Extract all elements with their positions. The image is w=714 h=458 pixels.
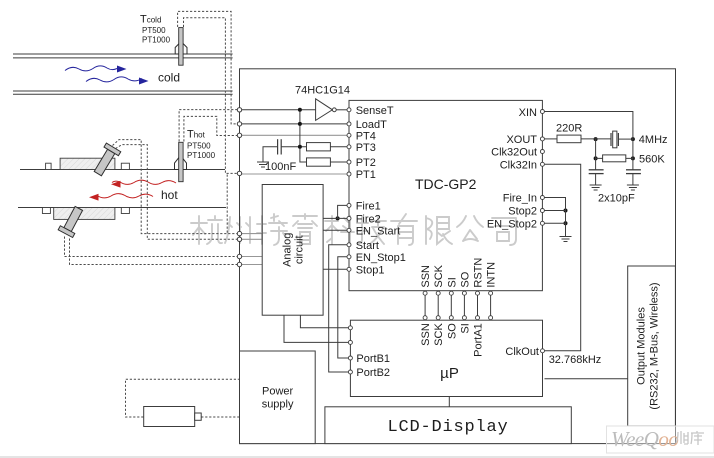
node transducer low a [237, 254, 241, 258]
pin circles TDC bottom [423, 291, 427, 295]
svg-text:Clk32Out: Clk32Out [491, 147, 537, 159]
microcontroller uP [350, 320, 542, 396]
cold pipe bottom wall [13, 90, 233, 92]
wire RSTN-PortA1 [477, 295, 479, 315]
wire crystal to 4MHz node [618, 138, 633, 140]
wire cap right to ground [632, 174, 634, 185]
wire PT1 [241, 173, 347, 175]
svg-text:Fire2: Fire2 [356, 213, 381, 225]
ground left cap [560, 185, 639, 242]
cold flow wave 1 [65, 66, 142, 82]
wire analog to uP a [284, 315, 348, 342]
resistor 560K [603, 155, 626, 162]
wire node to analog 4 [241, 264, 262, 266]
svg-text:PT1000: PT1000 [142, 36, 171, 45]
char rui [293, 214, 317, 244]
capacitor left 10pF [589, 170, 641, 174]
svg-text:Power: Power [262, 386, 294, 398]
output modules block [628, 266, 676, 426]
junction XOUT node [594, 137, 598, 141]
wire Thot inner [184, 116, 237, 141]
svg-text:RSTN: RSTN [473, 258, 485, 288]
wire upper transducer 2 [116, 145, 238, 240]
wire cap left to ground [595, 174, 597, 185]
hot flow wave 1 [97, 180, 176, 198]
pin circles TDC right [540, 110, 544, 114]
wire 220R to crystal [581, 138, 611, 140]
char si [492, 218, 516, 245]
wire Start to PortB2 [329, 245, 349, 372]
wire battery top [126, 379, 241, 417]
svg-text:TDC-GP2: TDC-GP2 [415, 176, 477, 192]
svg-text:Output Modules: Output Modules [636, 307, 648, 385]
dashed sensor wires [65, 11, 241, 417]
svg-text:circuit: circuit [294, 235, 306, 264]
watermark company text: hand-drawn hanzi strokes [191, 214, 516, 245]
svg-text:Stop1: Stop1 [356, 264, 385, 276]
resistor 220R [557, 135, 581, 143]
TDC-GP2 chip [349, 100, 542, 290]
wire EN_Start [323, 229, 347, 231]
svg-text:SSN: SSN [420, 323, 432, 346]
node transducer up a [237, 231, 241, 235]
svg-text:SI: SI [459, 323, 471, 333]
uP top pin labels rotated [420, 323, 484, 357]
TDC right pin labels [487, 107, 537, 230]
svg-text:2x10pF: 2x10pF [598, 193, 635, 205]
black wires left section [241, 110, 347, 162]
svg-text:SCK: SCK [433, 323, 445, 346]
svg-text:PT2: PT2 [356, 157, 376, 169]
boss tab bottom-left [42, 208, 50, 214]
junction EN_Stop2 [564, 221, 568, 225]
wire battery bottom [201, 416, 240, 418]
wire R2 link [300, 147, 307, 162]
svg-text:PT500: PT500 [187, 142, 211, 151]
junction 560K left [594, 156, 598, 160]
pin circles uP left [348, 326, 352, 330]
watermark weeqoo box [607, 426, 714, 453]
weeqoo chinese glyphs [676, 431, 704, 445]
junction Fire1/Fire2 [336, 216, 340, 220]
wire uP to output modules [545, 378, 628, 380]
node transducer low b [237, 262, 241, 266]
svg-text:INTN: INTN [486, 262, 498, 288]
svg-text:SO: SO [446, 323, 458, 339]
junction Stop2 [564, 209, 568, 213]
svg-text:32.768kHz: 32.768kHz [549, 354, 602, 366]
svg-text:4MHz: 4MHz [639, 134, 668, 146]
battery [144, 407, 202, 427]
transducer boss bottom [54, 208, 115, 220]
Tcold sensor probe [175, 28, 187, 66]
wire node to analog 3 [241, 256, 262, 258]
svg-text:EN_Stop1: EN_Stop1 [356, 252, 406, 264]
svg-text:µP: µP [440, 365, 459, 382]
ground right cap [627, 184, 639, 186]
svg-text:Fire_In: Fire_In [503, 193, 537, 205]
capacitor right 10pF [626, 169, 641, 171]
wires TDC right section [449, 112, 633, 407]
svg-text:SO: SO [459, 271, 471, 287]
char xian [426, 216, 452, 244]
wire SenseT [241, 109, 316, 111]
svg-text:supply: supply [262, 399, 294, 411]
node LoadT in [237, 122, 241, 126]
resistor R2 PT2 [307, 158, 331, 166]
svg-text:Fire1: Fire1 [356, 200, 381, 212]
wire stub vertical [226, 175, 228, 234]
wire uP to LCD [448, 397, 450, 407]
cold pipe top wall [13, 54, 233, 94]
svg-text:560K: 560K [639, 154, 665, 166]
label Thot PT500 PT1000 [187, 129, 216, 161]
boss tab top-right [121, 163, 129, 169]
wire INTN [490, 295, 492, 315]
Thot sensor probe [175, 142, 187, 181]
transducer boss top [60, 158, 115, 169]
wire EN_Stop1 to PortB1 [338, 257, 349, 358]
char ke [325, 216, 354, 244]
TDC bottom pin labels rotated [420, 258, 497, 288]
node transducer up b [237, 237, 241, 241]
svg-text:SI: SI [446, 277, 458, 287]
wire cap to ground [263, 147, 278, 162]
junction cap node [298, 145, 302, 149]
pin circle uP ClkOut [541, 349, 545, 353]
svg-text:LoadT: LoadT [356, 119, 387, 131]
wire Tcold A [178, 11, 238, 124]
junction SenseT jumper [298, 108, 302, 112]
svg-text:WeeQoo: WeeQoo [611, 427, 678, 451]
LCD display block [325, 407, 571, 444]
wire R2 to PT2 [330, 161, 347, 163]
svg-text:PT4: PT4 [356, 130, 376, 142]
wire jumper [299, 110, 301, 147]
cold flow arrowheads [117, 66, 149, 85]
svg-text:ClkOut: ClkOut [505, 346, 539, 358]
svg-text:Start: Start [356, 240, 379, 252]
wire upper transducer 1 [113, 140, 238, 234]
svg-text:PT1000: PT1000 [187, 151, 216, 160]
svg-text:EN_Stop2: EN_Stop2 [487, 218, 537, 230]
wire LoadT [241, 123, 347, 125]
wire lower transducer 1 [65, 237, 238, 257]
svg-text:Stop2: Stop2 [508, 206, 537, 218]
char gong [457, 216, 483, 241]
TDC left pin labels [356, 105, 406, 276]
wire node to analog 1 [241, 233, 262, 235]
ultrasonic transducer lower [58, 205, 86, 238]
wire SI-SO bus [450, 295, 452, 315]
svg-text:PortA1: PortA1 [473, 323, 485, 357]
svg-text:PortB2: PortB2 [356, 367, 390, 379]
hot pipe bottom wall [18, 207, 226, 209]
ultrasonic transducer upper [91, 143, 121, 178]
wire R1 to PT3 [330, 146, 347, 148]
svg-text:220R: 220R [556, 123, 582, 135]
hot pipe top wall [18, 170, 226, 208]
node PT1 in [237, 171, 241, 175]
wire lower transducer 2 [70, 239, 238, 265]
svg-text:Clk32In: Clk32In [500, 159, 537, 171]
svg-text:100nF: 100nF [265, 161, 296, 173]
wire Stop1 [323, 268, 347, 270]
svg-text:XOUT: XOUT [506, 134, 537, 146]
svg-text:PT3: PT3 [356, 142, 376, 154]
char zhou [225, 217, 250, 243]
wire SO-SI bus [463, 295, 465, 315]
label Tcold PT500 PT1000 [140, 14, 171, 45]
hot flow arrowheads [89, 181, 121, 201]
svg-text:74HC1G14: 74HC1G14 [295, 85, 350, 97]
wire node to analog 2 [241, 238, 262, 240]
junction 560K right [631, 156, 635, 160]
svg-text:cold: cold [158, 71, 180, 85]
svg-text:hot: hot [161, 188, 178, 202]
svg-text:(RS232, M-Bus, Wireless): (RS232, M-Bus, Wireless) [649, 282, 661, 409]
analog circuit block [262, 185, 323, 316]
wire XIN [544, 112, 633, 140]
char jiang [257, 214, 287, 245]
char hang [191, 216, 222, 244]
node PT4 in [237, 133, 241, 137]
pin circles TDC left [347, 108, 545, 374]
wire cap node [281, 146, 306, 148]
wire XOUT to 220R [544, 138, 557, 140]
wire Fire1 branch [338, 205, 347, 218]
wire inverter out [336, 109, 347, 111]
op-amp inverter 74HC1G14 [316, 99, 333, 121]
svg-text:SenseT: SenseT [356, 105, 394, 117]
svg-text:Thot: Thot [187, 129, 206, 141]
wire SCK bus [437, 295, 439, 315]
wire Thot up [179, 110, 237, 142]
wire PT4 [241, 134, 347, 136]
uP left pin labels [356, 353, 390, 379]
wires analog to TDC [284, 205, 348, 372]
junction LoadT jumper [298, 122, 302, 126]
svg-text:SSN: SSN [420, 265, 432, 288]
svg-text:PT500: PT500 [142, 26, 166, 35]
svg-text:LCD-Display: LCD-Display [387, 418, 508, 437]
junction 4MHz node [631, 137, 635, 141]
gray wires PT4 PT1 and analog inputs [241, 135, 347, 264]
wire EN_Stop2 [544, 222, 565, 224]
main circuit board box [240, 69, 676, 444]
capacitor 100nF [278, 139, 282, 154]
crystal 4MHz [611, 131, 618, 148]
svg-text:XIN: XIN [519, 107, 537, 119]
char ji [357, 216, 386, 244]
wire Fire_In tie [544, 198, 565, 237]
wire 560K left [596, 139, 603, 170]
page bottom rule [0, 456, 714, 458]
wire 560K right [626, 139, 633, 170]
wire Clk32In to ClkOut [545, 164, 581, 350]
svg-text:SCK: SCK [433, 264, 445, 287]
wire SSN bus [424, 295, 426, 315]
wire Stop2 [544, 210, 565, 212]
svg-text:PT1: PT1 [356, 169, 376, 181]
ground stop2 [560, 236, 572, 238]
char you [391, 214, 417, 245]
wire Fire2 [323, 217, 347, 219]
svg-text:Tcold: Tcold [140, 14, 161, 26]
ground for 100nF [257, 162, 269, 167]
svg-text:PortB1: PortB1 [356, 353, 390, 365]
wire analog to uP b [300, 315, 348, 328]
pin circles uP top [423, 316, 427, 320]
resistor R1 PT3 [307, 143, 331, 151]
svg-text:EN_Start: EN_Start [356, 225, 401, 237]
power supply block [240, 351, 316, 444]
wire Tcold B [184, 18, 238, 174]
boss tab top-left [46, 163, 52, 169]
boss tab bottom-right [121, 208, 129, 214]
svg-text:Analog: Analog [282, 233, 294, 267]
node SenseT in [237, 108, 241, 112]
